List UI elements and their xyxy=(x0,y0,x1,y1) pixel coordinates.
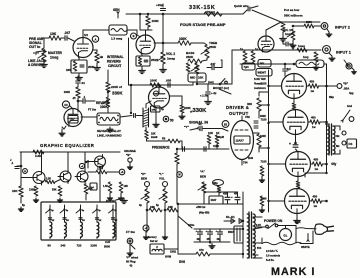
svg-text:.15: .15 xyxy=(72,96,76,100)
svg-text:2200: 2200 xyxy=(91,244,98,248)
svg-text:10K: 10K xyxy=(12,189,18,193)
svg-text:GRAPHIC EQUALIZER: GRAPHIC EQUALIZER xyxy=(40,143,95,148)
svg-text:INPUT 2: INPUT 2 xyxy=(335,25,351,30)
svg-text:1K: 1K xyxy=(216,131,219,135)
svg-text:.05A: .05A xyxy=(343,87,350,91)
svg-text:CIRCUIT: CIRCUIT xyxy=(108,64,121,68)
svg-text:2.0 5A× ¼: 2.0 5A× ¼ xyxy=(266,249,279,253)
svg-text:60 Plug: 60 Plug xyxy=(126,260,136,264)
svg-text:2K: 2K xyxy=(66,220,69,222)
svg-text:44y: 44y xyxy=(331,162,337,166)
svg-text:720: 720 xyxy=(77,244,82,248)
svg-text:220K: 220K xyxy=(184,106,191,110)
svg-text:GL: GL xyxy=(283,234,287,238)
svg-text:BEN: BEN xyxy=(200,175,206,179)
svg-text:12K: 12K xyxy=(208,131,213,135)
svg-text:470: 470 xyxy=(199,248,204,252)
svg-text:(PSom): (PSom) xyxy=(206,10,215,14)
svg-text:+: + xyxy=(231,195,233,199)
svg-text:7100: 7100 xyxy=(261,160,267,164)
svg-text:1µf: 1µf xyxy=(91,187,94,189)
svg-text:+: + xyxy=(289,142,291,146)
svg-text:VOL 2: VOL 2 xyxy=(166,52,175,56)
svg-text:33K-15K: 33K-15K xyxy=(189,5,215,11)
svg-text:250K: 250K xyxy=(186,55,194,59)
svg-text:5V4: 5V4 xyxy=(257,247,262,250)
svg-text:40µ: 40µ xyxy=(217,238,222,241)
svg-text:Quick wire: Quick wire xyxy=(234,4,249,8)
svg-text:Pot as low: Pot as low xyxy=(284,8,300,12)
svg-text:.01: .01 xyxy=(81,81,85,85)
svg-text:6Bµ: 6Bµ xyxy=(329,95,334,99)
svg-text:FT Sw: FT Sw xyxy=(88,108,97,112)
svg-text:PRESENCE: PRESENCE xyxy=(152,146,170,150)
svg-text:LINE, HAMMOND: LINE, HAMMOND xyxy=(97,134,122,138)
svg-text:1meg: 1meg xyxy=(298,44,305,48)
svg-text:(om): (om) xyxy=(208,80,214,84)
svg-text:.005: .005 xyxy=(166,79,172,83)
svg-text:-3): -3) xyxy=(129,264,132,268)
svg-text:WHITE: WHITE xyxy=(301,245,310,249)
svg-text:INTERNAL: INTERNAL xyxy=(107,55,124,59)
svg-text:“Y”: “Y” xyxy=(184,125,190,129)
svg-text:10K: 10K xyxy=(50,32,57,36)
svg-text:53K: 53K xyxy=(52,189,57,192)
svg-text:+B06 1w: +B06 1w xyxy=(196,207,205,209)
svg-text:(40µ 450): (40µ 450) xyxy=(199,212,209,215)
svg-text:12AX7: 12AX7 xyxy=(236,139,245,143)
svg-text:410: 410 xyxy=(223,193,228,196)
svg-text:1meg: 1meg xyxy=(50,56,58,60)
svg-text:450: 450 xyxy=(310,80,315,84)
svg-text:5000: 5000 xyxy=(104,245,110,249)
svg-text:“B”: “B” xyxy=(343,82,349,86)
svg-text:“A”: “A” xyxy=(200,170,205,174)
svg-text:.01: .01 xyxy=(198,122,202,126)
svg-text:+.2µ: +.2µ xyxy=(211,91,217,95)
svg-text:180: 180 xyxy=(66,68,71,72)
svg-text:10K: 10K xyxy=(152,110,156,112)
svg-text:.047: .047 xyxy=(210,62,216,66)
svg-text:40µ: 40µ xyxy=(197,238,202,241)
svg-text:1meg: 1meg xyxy=(167,57,175,61)
svg-text:MASTER: MASTER xyxy=(48,51,63,55)
svg-text:10K: 10K xyxy=(124,185,129,188)
svg-text:1/2: 1/2 xyxy=(84,33,88,37)
svg-text:2watt: 2watt xyxy=(151,136,158,139)
svg-text:BLK: BLK xyxy=(295,220,301,224)
svg-text:450: 450 xyxy=(311,116,316,120)
svg-text:+10µf: +10µf xyxy=(156,3,163,7)
svg-text:50: 50 xyxy=(170,119,174,123)
svg-text:“Y”: “Y” xyxy=(33,52,39,56)
svg-text:150Ω: 150Ω xyxy=(170,251,176,254)
svg-text:Gnd: Gnd xyxy=(347,105,352,108)
svg-text:5+0 B+: 5+0 B+ xyxy=(266,259,275,262)
svg-text:4µg: 4µg xyxy=(349,91,354,95)
svg-text:5V6: 5V6 xyxy=(179,260,185,264)
svg-text:B: B xyxy=(133,34,135,38)
svg-text:REVERB, DELAY: REVERB, DELAY xyxy=(97,129,121,133)
svg-text:+.1 2w: +.1 2w xyxy=(200,94,209,98)
svg-text:130R: 130R xyxy=(29,189,35,192)
svg-text:2K: 2K xyxy=(99,220,102,222)
svg-text:XX: XX xyxy=(64,103,68,107)
svg-text:factory: factory xyxy=(148,235,157,239)
svg-text:VOL: VOL xyxy=(159,177,165,181)
svg-text:VOL 1: VOL 1 xyxy=(283,28,291,32)
svg-text:“L”: “L” xyxy=(159,172,164,176)
svg-text:2K: 2K xyxy=(52,220,55,222)
svg-text:80: 80 xyxy=(48,244,52,248)
svg-text:DRIVER &: DRIVER & xyxy=(226,105,249,110)
svg-text:FT Sw: FT Sw xyxy=(126,230,135,234)
svg-text:25/25: 25/25 xyxy=(151,58,158,62)
svg-text:44M: 44M xyxy=(168,206,173,209)
svg-text:1B: 1B xyxy=(100,55,104,59)
svg-text:220K of: 220K of xyxy=(111,85,122,89)
svg-text:100K: 100K xyxy=(260,135,266,138)
svg-text:Set w/: Set w/ xyxy=(150,239,158,243)
svg-text:330K: 330K xyxy=(112,91,123,96)
svg-text:450: 450 xyxy=(314,158,319,162)
svg-text:100K: 100K xyxy=(152,19,160,23)
svg-text:240: 240 xyxy=(61,244,66,248)
svg-text:1100: 1100 xyxy=(248,157,254,160)
svg-text:CAT: CAT xyxy=(105,240,111,244)
svg-text:“B”: “B” xyxy=(126,153,131,157)
svg-text:100K: 100K xyxy=(150,79,158,83)
svg-text:2K: 2K xyxy=(115,220,118,222)
svg-text:1µ: 1µ xyxy=(240,47,243,51)
svg-text:3.5K: 3.5K xyxy=(46,178,51,181)
svg-text:3.3K: 3.3K xyxy=(35,154,42,158)
svg-text:100K: 100K xyxy=(179,37,187,41)
svg-text:OUTPUT: OUTPUT xyxy=(229,111,249,116)
svg-text:HUM: HUM xyxy=(165,255,172,259)
svg-text:734: 734 xyxy=(243,161,248,165)
svg-text:2200: 2200 xyxy=(261,82,267,86)
svg-text:OUT to: OUT to xyxy=(29,45,40,49)
svg-text:“F” wired: “F” wired xyxy=(126,256,138,260)
svg-text:MARK I: MARK I xyxy=(271,266,315,278)
svg-text:12V: 12V xyxy=(70,118,75,122)
svg-text:2µf: 2µf xyxy=(287,68,291,71)
svg-text:.047: .047 xyxy=(64,31,70,35)
svg-text:100µ: 100µ xyxy=(213,183,219,185)
svg-text:REVERB: REVERB xyxy=(107,60,121,64)
svg-text:100n: 100n xyxy=(188,223,195,227)
svg-text:5.6K ½W: 5.6K ½W xyxy=(254,77,266,81)
svg-text:7100: 7100 xyxy=(261,118,267,122)
svg-text:POWER ON: POWER ON xyxy=(264,219,283,223)
svg-text:10K: 10K xyxy=(198,76,204,80)
svg-text:INPUT 1: INPUT 1 xyxy=(336,50,352,55)
svg-text:100K: 100K xyxy=(100,105,108,109)
svg-text:resistors: resistors xyxy=(254,86,266,90)
svg-text:1.3 meg: 1.3 meg xyxy=(111,37,122,41)
svg-text:330K: 330K xyxy=(193,108,208,114)
svg-text:FS: FS xyxy=(349,142,353,146)
svg-text:56K w/Boom: 56K w/Boom xyxy=(284,14,303,18)
svg-text:4Ω: 4Ω xyxy=(336,135,339,138)
svg-text:MID: MID xyxy=(190,76,195,80)
svg-text:44M: 44M xyxy=(150,206,155,209)
svg-text:1mg: 1mg xyxy=(303,55,309,59)
svg-text:3.0 controls: 3.0 controls xyxy=(266,255,281,258)
svg-text:4187: 4187 xyxy=(211,198,217,202)
svg-text:ORANGE: ORANGE xyxy=(124,149,136,153)
svg-text:250K: 250K xyxy=(209,45,217,49)
svg-text:450: 450 xyxy=(207,238,212,241)
svg-text:BEN: BEN xyxy=(141,177,147,181)
svg-text:“D”: “D” xyxy=(141,172,146,176)
svg-text:100K: 100K xyxy=(64,90,70,94)
svg-text:2200: 2200 xyxy=(306,20,312,24)
svg-text:1.5K: 1.5K xyxy=(103,185,108,188)
svg-text:450: 450 xyxy=(313,195,318,199)
svg-text:1mg: 1mg xyxy=(285,32,291,36)
svg-text:2K: 2K xyxy=(82,220,85,222)
svg-text:A: A xyxy=(94,37,96,41)
svg-text:1µ: 1µ xyxy=(255,47,258,51)
svg-text:7µ/4: 7µ/4 xyxy=(244,65,250,69)
svg-text:FB: FB xyxy=(162,138,166,141)
svg-text:410K: 410K xyxy=(213,144,219,148)
svg-text:8Ω: 8Ω xyxy=(336,145,339,148)
svg-text:650V: 650V xyxy=(228,231,234,234)
svg-text:FOUR STAGE PRE-AMP: FOUR STAGE PRE-AMP xyxy=(180,22,226,27)
svg-text:W/DMT: W/DMT xyxy=(258,72,267,75)
